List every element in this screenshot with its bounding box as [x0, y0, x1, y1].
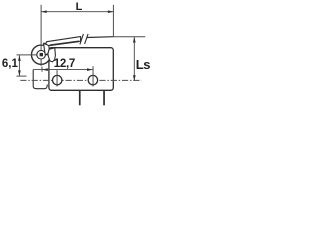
svg-text:Ls: Ls [136, 57, 150, 72]
svg-text:12,7: 12,7 [54, 58, 75, 70]
svg-text:6,1: 6,1 [2, 58, 19, 70]
svg-text:L: L [76, 1, 83, 13]
